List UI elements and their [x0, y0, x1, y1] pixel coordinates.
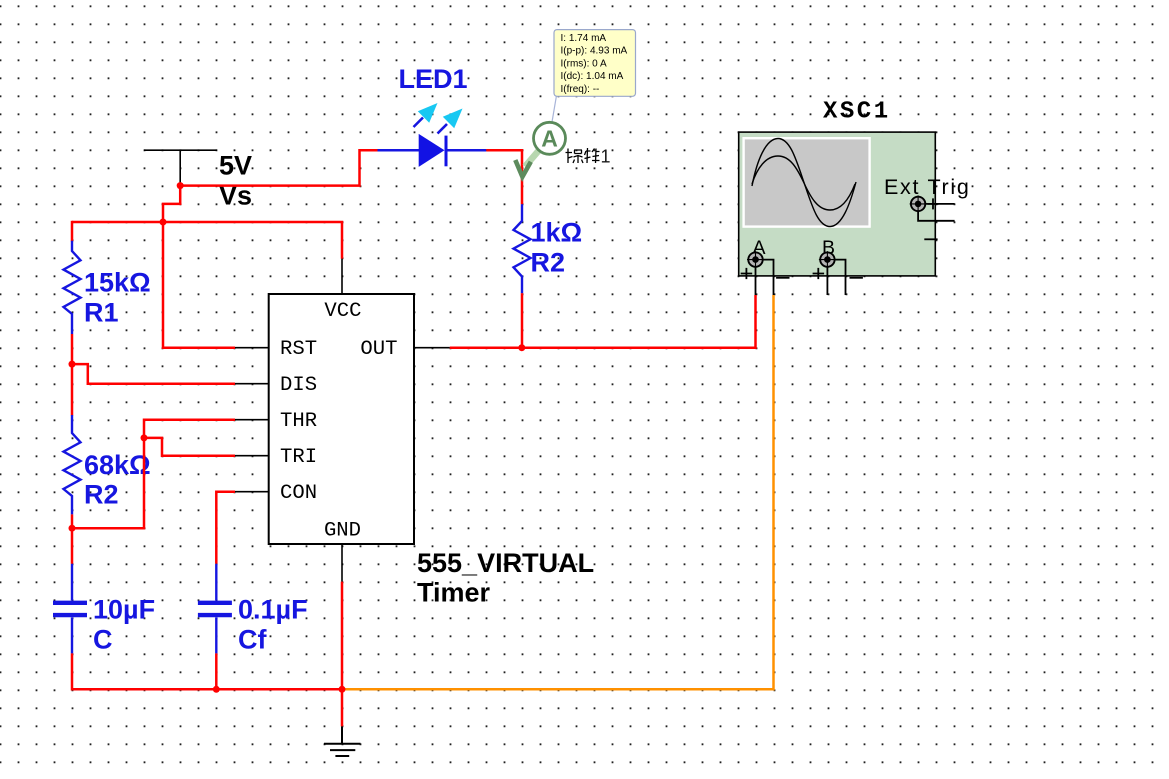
wire: VCC rail y=222 [72, 222, 342, 259]
scope waveform big [752, 139, 856, 227]
node: source junction [177, 182, 184, 189]
svg-text:R2: R2 [84, 480, 119, 510]
svg-text:THR: THR [280, 410, 317, 433]
svg-text:5V: 5V [219, 151, 252, 181]
pin CON stub [235, 491, 269, 493]
scope waveform small [752, 156, 855, 210]
svg-text:TRI: TRI [280, 446, 317, 469]
wire: source jog down to VCC rail [163, 186, 180, 222]
svg-text:I(freq): --: I(freq): -- [561, 84, 600, 95]
svg-text:C: C [93, 624, 113, 654]
svg-text:68kΩ: 68kΩ [84, 450, 151, 480]
node: TRI junction [141, 434, 148, 441]
wire: CON to cap Cf [216, 492, 235, 564]
node: rail junction [160, 219, 167, 226]
node: Cf bottom junction [213, 686, 220, 693]
svg-text:OUT: OUT [360, 338, 397, 361]
resistor R2 1k (blue) [514, 204, 531, 293]
wire: cap Cf to bottom rail [215, 653, 218, 689]
node: R1 bottom junction [69, 361, 76, 368]
svg-text:VCC: VCC [324, 300, 361, 323]
pin RST stub [235, 347, 269, 349]
svg-text:A: A [541, 126, 558, 152]
svg-text:GND: GND [324, 520, 361, 543]
probe circle A [534, 122, 566, 154]
555 timer U1 box [235, 259, 450, 582]
svg-text:1: 1 [601, 147, 611, 167]
wire: R1 bottom to node [71, 334, 74, 364]
wire: cap C to bottom rail [72, 653, 342, 689]
scope terminal ExtTrig [910, 195, 955, 239]
svg-text:Ext Trig: Ext Trig [884, 175, 970, 199]
svg-text:15kΩ: 15kΩ [84, 268, 151, 298]
pin DIS stub [235, 383, 269, 385]
scope screen [744, 138, 870, 226]
pin VCC stub [341, 259, 343, 294]
wire: node down to cap C [71, 528, 74, 564]
scope terminal B [813, 251, 863, 295]
svg-text:10µF: 10µF [93, 595, 155, 625]
LED1 cathode wire (blue) [448, 149, 487, 152]
svg-text:RST: RST [280, 338, 317, 361]
svg-text:I(dc): 1.04 mA: I(dc): 1.04 mA [561, 71, 624, 82]
svg-text:0.1µF: 0.1µF [238, 595, 308, 625]
pin TRI stub [235, 455, 269, 457]
svg-text:I(rms): 0 A: I(rms): 0 A [561, 58, 607, 69]
wire: node to DIS pin [72, 364, 235, 384]
svg-text:I: 1.74 mA: I: 1.74 mA [561, 33, 607, 44]
wire: R2 bottom to node [71, 514, 74, 528]
LED1 diode triangle [419, 134, 445, 167]
svg-text:1kΩ: 1kΩ [531, 218, 583, 248]
capacitor Cf 0.1uF (blue) [198, 564, 232, 654]
oscilloscope XSC1 body [739, 132, 936, 276]
svg-text:DIS: DIS [280, 374, 317, 397]
svg-text:XSC1: XSC1 [823, 99, 891, 126]
resistor R1 15k (blue) [64, 241, 81, 334]
node: ground junction [339, 686, 346, 693]
svg-text:Timer: Timer [417, 578, 491, 608]
wire: THR branch vertical [72, 420, 235, 529]
LED1 anode wire (blue) [378, 149, 420, 152]
svg-text:Cf: Cf [238, 624, 267, 654]
wire: GND pin to bottom rail (red) [341, 582, 344, 727]
probe tooltip box [554, 30, 636, 97]
resistor R2 68k (blue) [64, 415, 81, 514]
capacitor C 10uF (blue) [53, 564, 87, 654]
pin OUT stub [414, 347, 450, 349]
wire: R2 to OUT junction (red) [521, 293, 524, 348]
wire: rail down to RST [163, 222, 235, 348]
pin GND stub [341, 544, 343, 582]
svg-text:R1: R1 [84, 297, 119, 327]
tooltip text lines [561, 33, 628, 95]
wire: LED to probe corner (red) [486, 150, 522, 204]
LED1 light arrow 2 [438, 109, 463, 134]
probe callout leader line [552, 96, 557, 123]
LED1 light arrow 1 [414, 103, 438, 127]
node: OUT junction [518, 344, 525, 351]
svg-text:CON: CON [280, 482, 317, 505]
scope terminal A [741, 251, 790, 295]
svg-text:LED1: LED1 [399, 64, 468, 94]
svg-text:R2: R2 [531, 247, 566, 277]
wire: OUT net (red) [450, 295, 756, 348]
pin THR stub [235, 419, 269, 421]
wire: bottom rail to scope A- (orange) [344, 295, 774, 689]
wire: source to LED (red) [180, 150, 377, 185]
wire: left rail top red above R1 [71, 221, 74, 242]
node: R2 bottom junction [69, 525, 76, 532]
svg-text:I(p-p): 4.93 mA: I(p-p): 4.93 mA [561, 46, 628, 57]
LED1 cathode bar [445, 136, 448, 167]
power source V1 5V bar symbol [144, 150, 217, 185]
probe arrowhead [515, 160, 531, 177]
probe arrow shaft [525, 149, 541, 167]
ground symbol [324, 726, 361, 756]
wire: node down to R2 [71, 364, 74, 415]
wire: TRI branch [144, 438, 235, 456]
probe label (CJK tanzhen1) [566, 148, 600, 163]
svg-text:555_VIRTUAL: 555_VIRTUAL [417, 548, 594, 578]
